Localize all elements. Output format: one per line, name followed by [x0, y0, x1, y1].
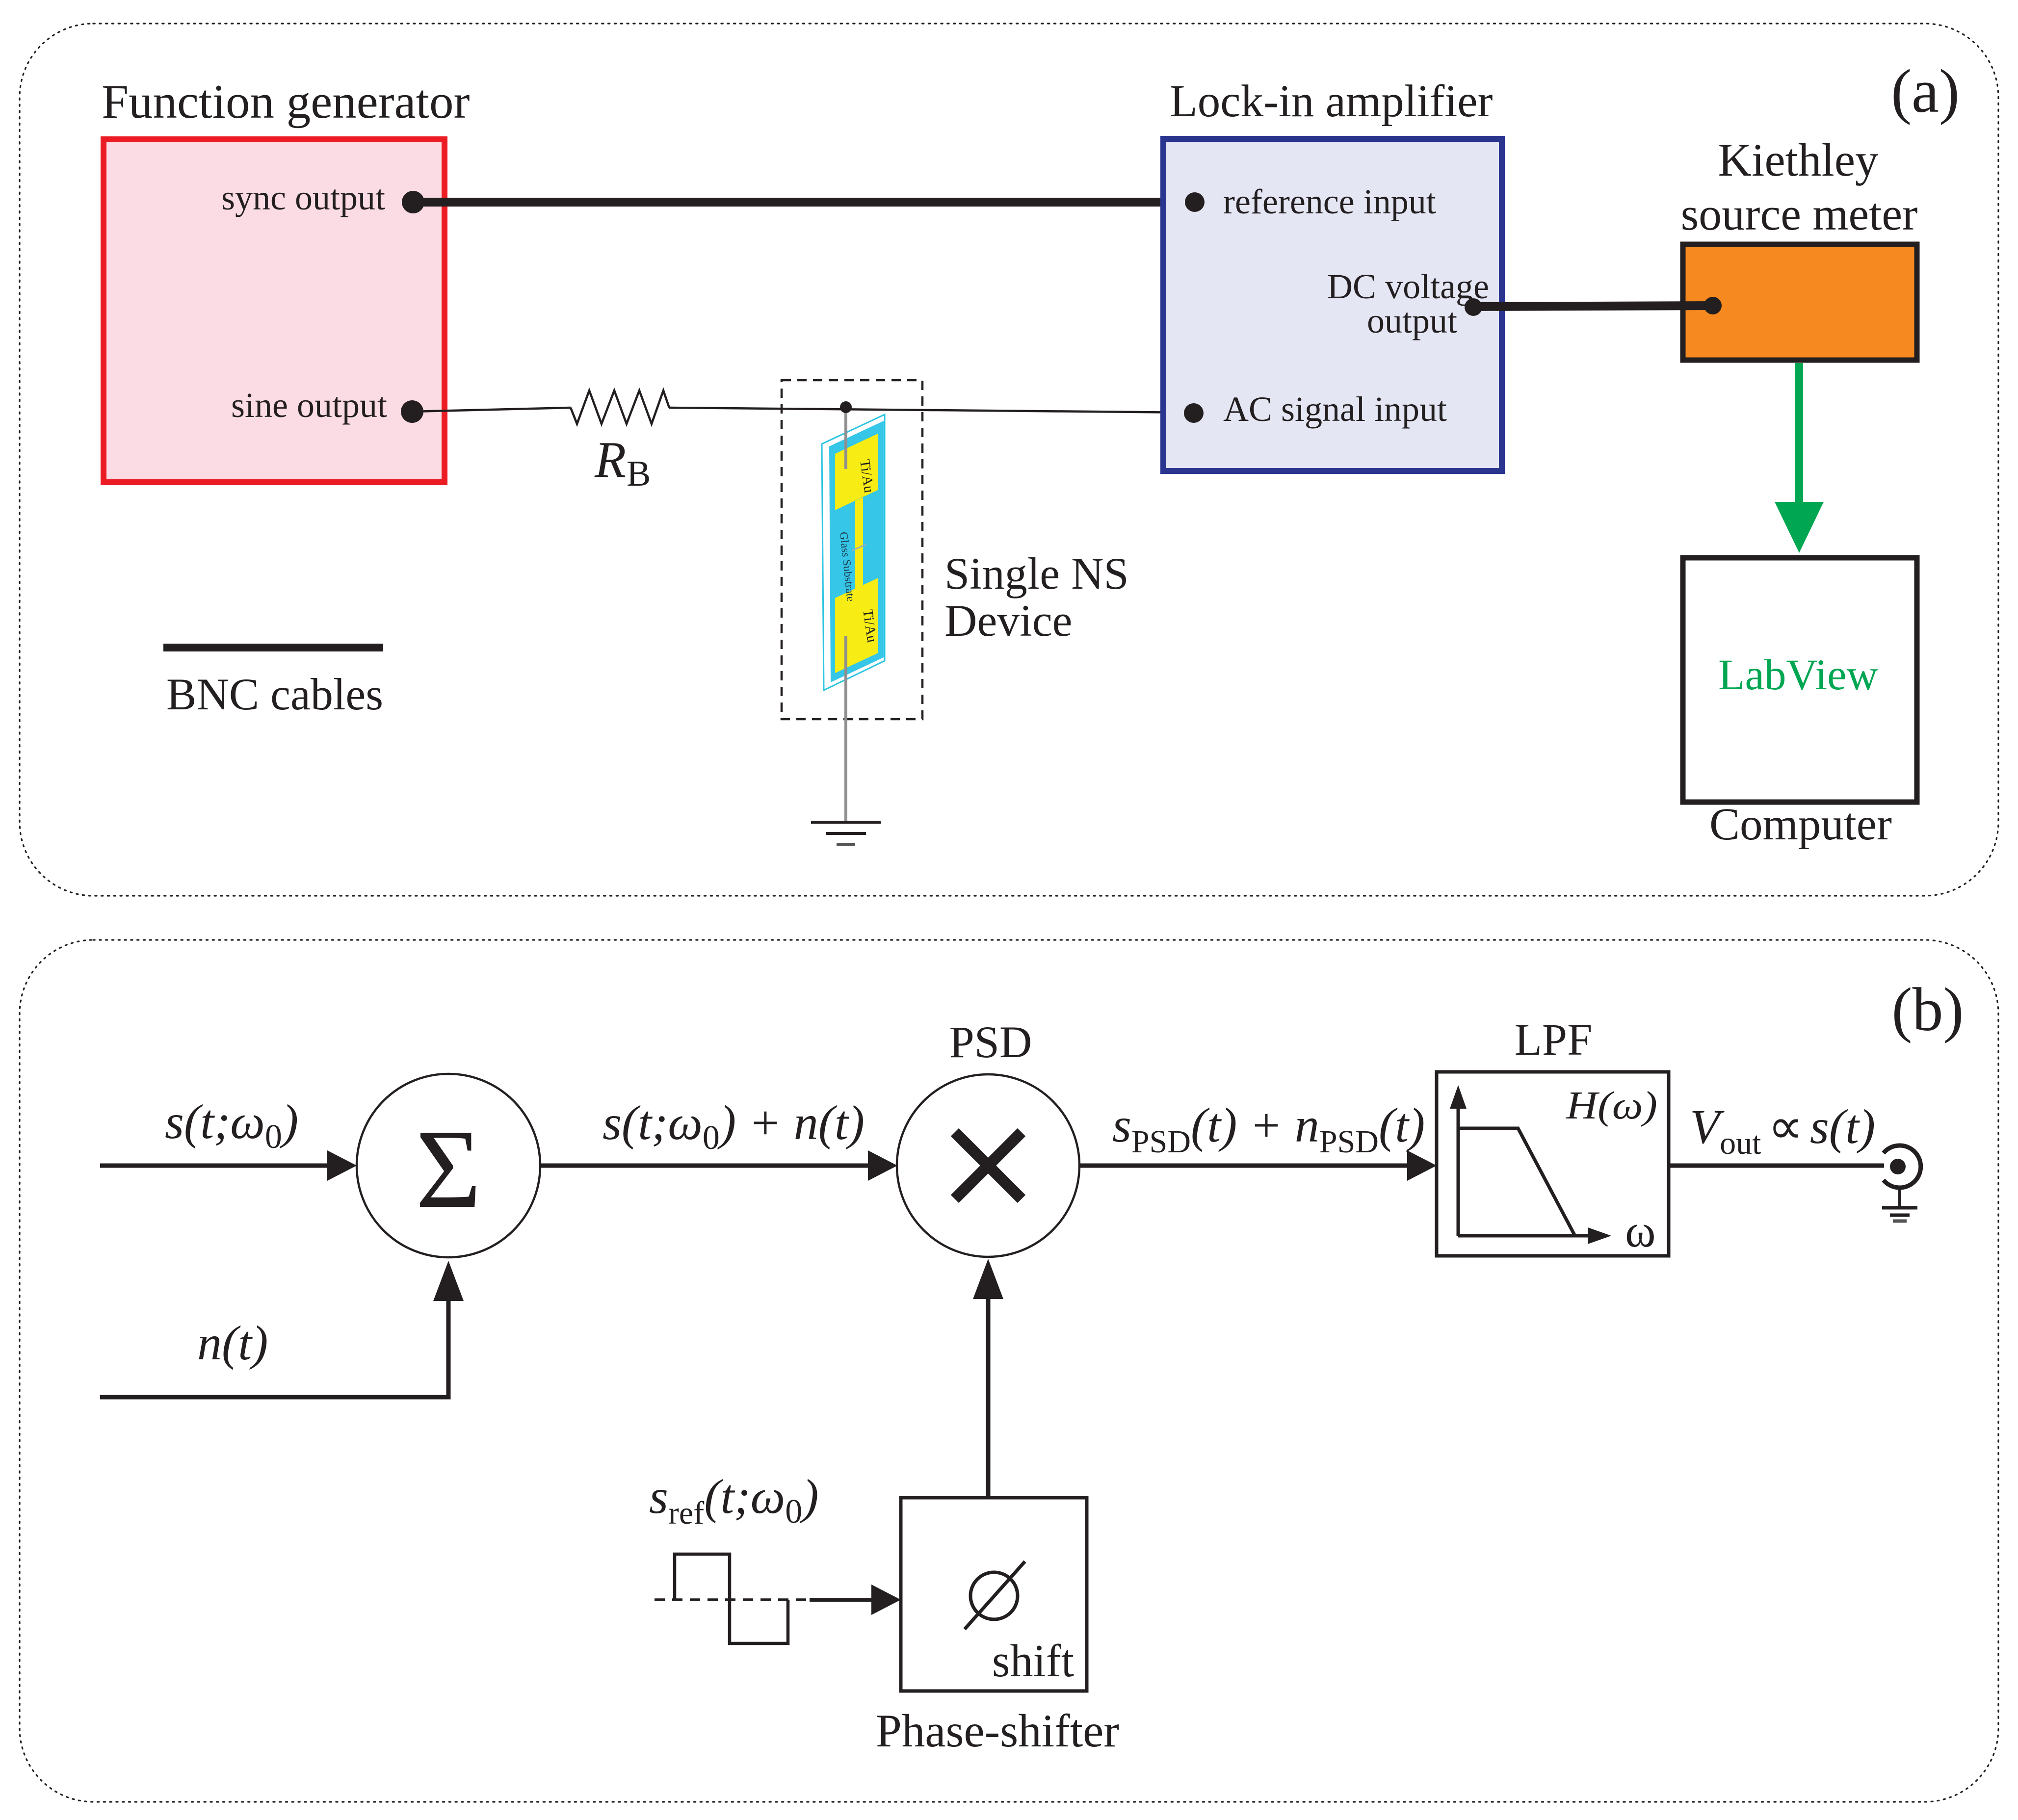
- wire: node to device top electrode: [844, 407, 847, 469]
- LPF x axis: [1458, 1234, 1592, 1238]
- wire: LPF to output: [1669, 1164, 1884, 1168]
- wire: sine output to AC signal input: [412, 408, 571, 412]
- svg-text:shift: shift: [992, 1636, 1074, 1687]
- output connector J1: [1884, 1145, 1921, 1206]
- node A junction dot: [840, 401, 852, 413]
- svg-text:Lock-in amplifier: Lock-in amplifier: [1170, 76, 1493, 127]
- GPIB arrow: source meter to computer: [1775, 363, 1824, 553]
- wire: summer to PSD: [540, 1164, 874, 1168]
- svg-text:Device: Device: [944, 596, 1073, 646]
- computer box U4: [1683, 558, 1917, 802]
- svg-text:ω: ω: [1625, 1205, 1656, 1257]
- svg-text:LabView: LabView: [1718, 651, 1878, 699]
- svg-text:DC voltage: DC voltage: [1327, 267, 1489, 306]
- lock-in amplifier box U2: [1163, 139, 1502, 471]
- wire: n(t) into summer: [100, 1290, 448, 1397]
- wire: device bottom electrode to ground: [844, 636, 847, 821]
- svg-text:(a): (a): [1891, 57, 1960, 126]
- single NS device dashed enclosure: [782, 380, 922, 719]
- svg-text:H(ω): H(ω): [1566, 1084, 1657, 1127]
- panel (a) dotted border: [20, 24, 1998, 896]
- LPF box U7: [1437, 1072, 1669, 1256]
- sync output terminal dot: [402, 191, 424, 213]
- svg-text:(b): (b): [1892, 976, 1964, 1044]
- resistor RB: [571, 390, 669, 424]
- PSD multiplier U6: [897, 1074, 1079, 1257]
- AC signal input terminal dot: [1184, 403, 1204, 423]
- BNC cables legend line: [163, 644, 383, 651]
- svg-text:B: B: [627, 454, 651, 494]
- source meter input terminal dot: [1704, 297, 1722, 314]
- svg-text:PSD: PSD: [949, 1017, 1032, 1067]
- summing node U5: [357, 1074, 540, 1257]
- panel (b) dotted border: [20, 940, 1998, 1802]
- svg-text:sync output: sync output: [221, 178, 385, 217]
- phase-shifter box U8: [901, 1498, 1087, 1691]
- svg-text:Vout∝s(t): Vout∝s(t): [1690, 1099, 1875, 1161]
- svg-text:Kiethley: Kiethley: [1718, 134, 1879, 186]
- function generator box U1: [104, 139, 445, 482]
- reference input terminal dot: [1185, 192, 1205, 212]
- svg-text:n(t): n(t): [197, 1316, 268, 1370]
- phase symbol: [970, 1572, 1018, 1619]
- svg-text:LPF: LPF: [1515, 1014, 1593, 1065]
- svg-text:R: R: [594, 431, 626, 488]
- single NS device chip: [822, 415, 885, 690]
- svg-text:output: output: [1367, 301, 1457, 340]
- wire: PSD to LPF: [1079, 1164, 1414, 1168]
- BNC cable: sync output to reference input: [413, 198, 1195, 207]
- ground (panel a): [811, 822, 881, 844]
- svg-text:Σ: Σ: [416, 1106, 481, 1231]
- square wave reference symbol: [655, 1598, 810, 1601]
- sine output terminal dot: [401, 400, 423, 423]
- wire: s(t;w0) into summer: [100, 1164, 334, 1168]
- Kiethley source meter box U3: [1683, 244, 1917, 360]
- svg-text:reference input: reference input: [1223, 182, 1436, 221]
- svg-text:sine output: sine output: [231, 386, 387, 425]
- svg-text:Computer: Computer: [1709, 799, 1892, 850]
- DC voltage output terminal dot: [1465, 298, 1482, 316]
- wire: phase-shifter to PSD: [986, 1290, 991, 1498]
- BNC cable: DC voltage output to source meter: [1473, 306, 1713, 307]
- svg-text:Function generator: Function generator: [102, 75, 470, 129]
- svg-text:BNC cables: BNC cables: [166, 669, 383, 719]
- svg-text:Single NS: Single NS: [944, 548, 1129, 598]
- svg-text:AC signal input: AC signal input: [1223, 390, 1447, 429]
- ground (output connector): [1882, 1208, 1917, 1221]
- LPF y axis: [1457, 1104, 1460, 1236]
- LPF response curve: [1458, 1128, 1575, 1236]
- wire: reference into phase-shifter: [810, 1598, 877, 1602]
- svg-text:s(t;ω0) + n(t): s(t;ω0) + n(t): [603, 1095, 865, 1157]
- svg-text:Phase-shifter: Phase-shifter: [876, 1705, 1119, 1757]
- svg-text:source meter: source meter: [1681, 189, 1918, 240]
